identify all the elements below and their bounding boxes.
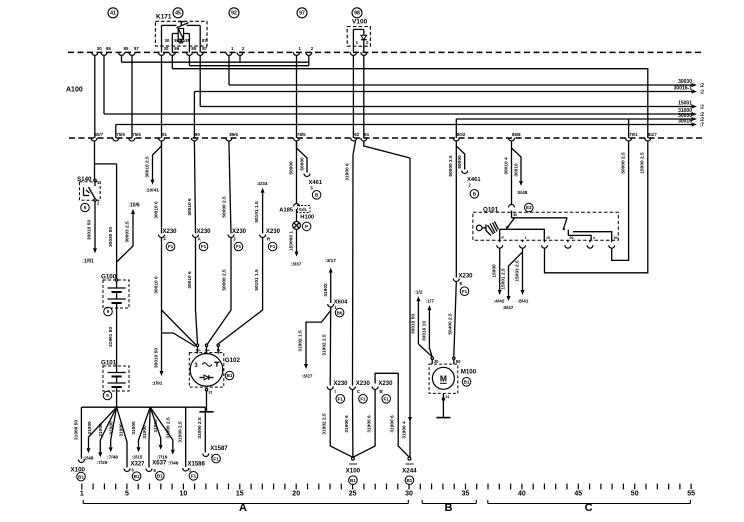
connector X230 A	[193, 235, 199, 238]
svg-text:31000: 31000	[98, 423, 104, 437]
unit A185 box	[298, 206, 311, 213]
svg-text:31000 2.5: 31000 2.5	[178, 421, 184, 443]
svg-text::7/29: :7/29	[97, 460, 108, 466]
svg-text:1: 1	[80, 491, 84, 498]
fuse ref circle F1 X230R	[268, 242, 277, 251]
svg-text:15001: 15001	[678, 101, 692, 107]
svg-text:P: P	[305, 224, 308, 229]
svg-text:31000: 31000	[153, 419, 159, 433]
top bus pin 30 at x=94.8	[92, 52, 98, 55]
svg-text:H100: H100	[300, 214, 314, 220]
wire pin2b down	[308, 55, 310, 65]
ground ref circle 6	[81, 203, 90, 212]
ignition Q101 contacts2	[567, 230, 569, 236]
wire 31902 branch :3/27	[306, 311, 331, 365]
ignition Q101 arm2	[563, 218, 567, 230]
wire 30 loop to 79/1	[612, 141, 629, 260]
svg-text:87: 87	[202, 46, 207, 51]
svg-text:50000: 50000	[457, 155, 463, 169]
connector X230 J	[228, 235, 234, 238]
svg-text:30016-1: 30016-1	[674, 86, 693, 92]
svg-text:15: 15	[236, 491, 244, 498]
svg-text:20: 20	[292, 491, 300, 498]
svg-text:F1: F1	[201, 244, 207, 249]
wire fan :7/29	[100, 407, 116, 452]
svg-text:X230: X230	[356, 381, 371, 387]
alternator G102 pins	[196, 344, 198, 346]
svg-text:31900 6: 31900 6	[344, 415, 350, 433]
wire X230C to X100	[352, 390, 354, 458]
svg-text:B: B	[445, 502, 453, 514]
svg-text::10/41: :10/41	[145, 188, 159, 194]
svg-text:10: 10	[180, 491, 188, 498]
wire V100-2 to 91	[363, 55, 365, 138]
relay K171 coil	[178, 29, 183, 40]
svg-text:30: 30	[97, 46, 102, 51]
svg-text::8/48: :8/48	[517, 190, 528, 196]
relay K171 contact tick	[180, 22, 182, 26]
wire 30010 to Q101	[511, 141, 513, 205]
svg-text:A100: A100	[66, 87, 83, 94]
wire fan X637	[149, 407, 150, 467]
svg-text:50400 2.5: 50400 2.5	[447, 313, 453, 335]
lamp H100 symbol	[296, 209, 298, 222]
node X244	[408, 457, 411, 460]
svg-text:80/2: 80/2	[457, 132, 466, 137]
svg-text::2: :2	[700, 83, 705, 89]
svg-text:B1: B1	[134, 474, 140, 479]
ignition Q101 bottom pin 5	[587, 245, 593, 248]
svg-text:30010 50: 30010 50	[153, 348, 159, 368]
coordinate ruler	[81, 484, 83, 490]
svg-text:31900 4: 31900 4	[401, 421, 407, 439]
svg-text:G101: G101	[101, 360, 117, 367]
wire 31900 long	[353, 141, 356, 386]
svg-text::7/19: :7/19	[157, 454, 168, 460]
wire relay86 down	[171, 55, 173, 68]
wire branch to B+ upper	[162, 310, 197, 346]
top bus pin 1 at x=229	[226, 52, 232, 55]
wire pin1a down	[228, 55, 230, 85]
diode V100 wiring	[352, 29, 354, 52]
relay K171 coil leads	[172, 33, 178, 35]
svg-text:86: 86	[106, 46, 111, 51]
svg-text:35: 35	[462, 491, 470, 498]
svg-text:I: I	[335, 389, 336, 394]
unit A185 pin	[294, 204, 300, 207]
wire junction to G100 feed	[95, 163, 117, 165]
lamp ref circle P	[302, 222, 311, 231]
svg-text:50000: 50000	[288, 161, 294, 175]
wire 15000 :4/42	[499, 248, 501, 290]
section bracket A	[83, 503, 408, 505]
svg-text:6: 6	[84, 205, 87, 210]
svg-text:85: 85	[124, 46, 129, 51]
svg-text:50: 50	[456, 359, 461, 364]
svg-text:X230: X230	[163, 229, 178, 235]
switch S140 pin1	[94, 179, 96, 181]
fuse ref circle F1 X230E	[460, 287, 469, 296]
svg-text:31: 31	[445, 395, 449, 399]
top bus pin 85 at x=189.4	[186, 52, 192, 55]
bottom bus pin 91	[361, 138, 367, 141]
bottom bus pin 81/7	[645, 138, 651, 141]
connector X230 B	[372, 387, 378, 390]
ground ref circle 9 G101	[103, 391, 112, 400]
starter M100 body	[432, 367, 454, 389]
svg-text:W: W	[217, 349, 221, 353]
wire fan :2/48	[89, 407, 117, 448]
svg-text:85: 85	[185, 38, 190, 43]
svg-text:31000: 31000	[87, 421, 93, 435]
svg-text:85: 85	[191, 46, 196, 51]
wire 75/5 riser	[115, 125, 117, 139]
ground ref circle B1 X244	[405, 476, 414, 485]
svg-text:92: 92	[354, 132, 359, 137]
svg-text:4: 4	[593, 236, 595, 240]
svg-text:31000: 31000	[131, 421, 137, 435]
wire relay30 to 91	[161, 55, 163, 138]
svg-text:X230: X230	[459, 274, 474, 280]
ground ref circle B6 X604	[335, 308, 344, 317]
wire 15001 :8/47	[509, 252, 523, 296]
svg-text::3/37: :3/37	[291, 261, 302, 267]
wire X230A to G102 B+	[196, 238, 198, 344]
wire 80/7 to junction	[94, 141, 96, 164]
switch S140 pin2	[94, 199, 96, 201]
connector X461 pin5	[304, 174, 310, 177]
connector X230 I	[327, 387, 333, 390]
svg-text:B1: B1	[78, 474, 84, 479]
svg-text::4/42: :4/42	[494, 298, 505, 304]
svg-text:90: 90	[195, 132, 200, 137]
bottom bus pin 86/8	[509, 138, 515, 141]
svg-text:E3: E3	[526, 205, 532, 210]
svg-text:A185: A185	[279, 207, 294, 213]
svg-text:31900 6: 31900 6	[390, 415, 396, 433]
svg-text::3/27: :3/27	[302, 374, 313, 380]
svg-text:25: 25	[349, 491, 357, 498]
svg-text::7/46: :7/46	[168, 461, 179, 467]
ignition Q101 contacts1	[500, 228, 515, 230]
wire 50101 from :4/34	[262, 193, 264, 234]
switch S140 actuator	[83, 188, 85, 196]
svg-text:15001 2.5: 15001 2.5	[501, 268, 507, 290]
wire 50000 to X230J	[229, 141, 231, 234]
top bus pin V100 at x=363.8	[361, 52, 367, 55]
svg-text:9: 9	[106, 393, 109, 398]
bottom bus pin 90	[191, 138, 197, 141]
ref :1/7 arrow	[428, 310, 430, 348]
ignition Q101 internal bar	[511, 211, 513, 218]
svg-text:15000: 15000	[492, 264, 498, 278]
alternator G102 body	[190, 354, 223, 387]
wire X1586 drop	[185, 407, 187, 467]
ground ref circle B1 G102	[225, 371, 234, 380]
svg-text:M: M	[440, 373, 447, 383]
battery G101 plates	[116, 366, 118, 373]
ground M100	[442, 393, 444, 417]
svg-text:92: 92	[231, 11, 237, 17]
bottom bus pin 91	[159, 138, 165, 141]
top bus pin 86 at x=104	[101, 52, 107, 55]
connector X637	[146, 469, 152, 472]
wire pin86 down	[103, 55, 105, 114]
diode V100 box	[347, 27, 370, 47]
bottom bus pin 75/5	[113, 138, 119, 141]
wire X1587 drop	[204, 407, 206, 452]
svg-text:B+: B+	[196, 349, 202, 353]
wire 31902 to X230I	[329, 307, 332, 386]
svg-text::7: :7	[700, 123, 705, 129]
svg-text:F1: F1	[191, 474, 197, 479]
svg-text:30010 50: 30010 50	[410, 314, 416, 334]
wire 30003 branch	[117, 214, 133, 262]
svg-text::10/6: :10/6	[128, 203, 140, 209]
wire X230I to X100	[330, 390, 353, 458]
svg-text:X100: X100	[346, 468, 361, 475]
top bus pin V100 at x=353.4	[350, 52, 356, 55]
svg-text:75/5: 75/5	[116, 132, 125, 137]
svg-text:X230: X230	[378, 381, 393, 387]
top bus pin 87 at x=132	[129, 52, 135, 55]
svg-text:31: 31	[208, 390, 212, 394]
svg-text:50101 1.5: 50101 1.5	[254, 269, 260, 291]
svg-text:F1: F1	[462, 289, 468, 294]
sheet ref 98	[352, 8, 362, 18]
top bus pin 1 at x=296.5	[294, 52, 300, 55]
svg-text:1: 1	[525, 236, 527, 240]
svg-text:30016 10: 30016 10	[421, 321, 427, 341]
ignition Q101 bottom pin 4	[565, 245, 571, 248]
svg-text::7/48: :7/48	[107, 455, 118, 461]
ignition Q101 top pin	[509, 205, 515, 208]
svg-text:81/7: 81/7	[648, 132, 657, 137]
svg-text::4/34: :4/34	[257, 181, 268, 187]
svg-text:E: E	[460, 281, 463, 286]
svg-text:X230: X230	[266, 229, 281, 235]
svg-text:F1: F1	[236, 244, 242, 249]
svg-text:80/7: 80/7	[95, 132, 104, 137]
sheet ref circle E3 Q101	[525, 203, 534, 212]
ground ref circle B1 M100	[462, 378, 471, 387]
svg-text::1/2: :1/2	[414, 290, 423, 296]
top bus pin 85 at x=121.5	[119, 52, 125, 55]
svg-text:30010 6: 30010 6	[187, 271, 193, 289]
wire to S140	[94, 164, 96, 179]
svg-text:75/6: 75/6	[132, 132, 141, 137]
svg-text:79/1: 79/1	[629, 132, 638, 137]
svg-text:F1: F1	[168, 244, 174, 249]
fuse ref circle F1 X230A	[199, 242, 208, 251]
wire X230R to G102 W	[218, 238, 262, 344]
svg-text:30010 6: 30010 6	[153, 276, 159, 294]
svg-text:B1: B1	[157, 474, 163, 479]
wire pin87 to 75/6	[131, 55, 133, 138]
wire pin2a down	[239, 55, 241, 62]
svg-text:30010 2.5: 30010 2.5	[144, 156, 150, 178]
svg-text:31000: 31000	[119, 423, 125, 437]
svg-text:31000: 31000	[109, 421, 115, 435]
wire relay87 down	[199, 55, 201, 106]
bottom bus pin 89/6	[226, 138, 232, 141]
wire 30010 branch :8/48	[512, 148, 522, 181]
wire relay85 down	[188, 55, 190, 65]
battery G101 box	[103, 366, 129, 391]
svg-text:91: 91	[162, 132, 167, 137]
svg-text::8/47: :8/47	[503, 305, 514, 311]
wire G101 to ground rail	[116, 391, 118, 407]
sheet ref 41	[108, 8, 118, 18]
ignition Q101 bottom pin 6	[609, 245, 615, 248]
svg-text:30010 6: 30010 6	[187, 198, 193, 216]
svg-text:30010 6: 30010 6	[153, 201, 159, 219]
wire fan :7/46	[150, 407, 173, 450]
wire 31901 diag	[364, 141, 410, 158]
diode V100 symbol	[361, 35, 367, 39]
connector X230 C	[350, 387, 356, 390]
svg-text:X230: X230	[334, 381, 349, 387]
ground ref circle B1 X100 left	[77, 472, 86, 481]
switch S140 contact	[94, 182, 96, 187]
svg-text:F1: F1	[384, 397, 390, 402]
wire 15 loop to 81/7	[545, 141, 648, 273]
svg-text::2: :2	[700, 90, 705, 96]
wire 31000 exit	[104, 113, 692, 115]
svg-text:86: 86	[174, 38, 179, 43]
node X100 mid	[352, 457, 355, 460]
wire 15003 :8/41	[522, 248, 524, 290]
wire diag to M100 pin30	[418, 344, 432, 357]
switch S140 box	[80, 182, 101, 201]
wire fan :7/48	[111, 407, 117, 447]
svg-text:B1: B1	[464, 380, 470, 385]
bottom bus pin 75/6	[129, 138, 135, 141]
wire 30011 internal	[172, 69, 648, 138]
wire relay85 link	[189, 65, 308, 67]
svg-text:X1587: X1587	[210, 446, 228, 452]
ground ref circle B X461-5	[312, 191, 321, 200]
wire 50000 to X461-2	[456, 146, 464, 170]
svg-text::2/48: :2/48	[83, 456, 94, 462]
svg-text:50: 50	[631, 491, 639, 498]
svg-text:30: 30	[513, 213, 517, 217]
ground G102	[206, 391, 208, 411]
wire X100 drop	[80, 407, 82, 458]
wire 50000 to A185	[296, 141, 298, 203]
connector X230 E	[453, 279, 459, 282]
wire 15001 exit	[200, 106, 691, 108]
svg-text:15003 2.5: 15003 2.5	[515, 260, 521, 282]
svg-text:J: J	[233, 237, 236, 242]
svg-text:40: 40	[518, 491, 526, 498]
svg-text:78/5: 78/5	[297, 132, 306, 137]
wire V100-1 to 92	[352, 55, 354, 138]
svg-text:41: 41	[110, 11, 116, 17]
wire pin90 riser	[193, 92, 195, 139]
svg-text:31900 6: 31900 6	[345, 163, 351, 181]
svg-text:86/8: 86/8	[512, 132, 521, 137]
top bus pin 30 at x=161.5	[159, 52, 165, 55]
wire 30010 from S140	[94, 201, 96, 248]
wire 30030 exit	[229, 84, 692, 86]
battery G100 plates	[116, 281, 118, 288]
svg-text:50000 2.5: 50000 2.5	[448, 155, 454, 177]
svg-text:31902: 31902	[323, 283, 329, 297]
svg-text:87: 87	[202, 38, 207, 43]
connector X230 R	[260, 235, 266, 238]
ignition Q101 bottom pin 2	[520, 245, 526, 248]
svg-text:45: 45	[175, 11, 181, 17]
svg-text:55: 55	[687, 491, 695, 498]
wire 31901 G100-G101	[116, 308, 118, 366]
svg-text:15: 15	[546, 236, 550, 240]
svg-text:B1: B1	[350, 478, 356, 483]
top bus pin 86 at x=172.3	[169, 52, 175, 55]
top bus pin 2 at x=308.8	[306, 52, 312, 55]
svg-text:31902 2.5: 31902 2.5	[322, 334, 328, 356]
wire ground rail	[81, 406, 205, 408]
bottom bus pin 78/5	[294, 138, 300, 141]
node A100 top dashed bus	[68, 51, 703, 53]
svg-text:50000 2.5: 50000 2.5	[620, 152, 626, 174]
node A100 bottom dashed bus	[69, 137, 703, 139]
wire 30010 to X230A	[194, 141, 195, 234]
svg-text:30: 30	[165, 38, 170, 43]
top bus pin 2 at x=240	[237, 52, 243, 55]
bottom bus pin 80/7	[91, 138, 97, 141]
wire 30016 exit	[116, 124, 692, 126]
svg-text:C: C	[585, 502, 593, 514]
wire 50000 to X461-5	[297, 141, 308, 173]
svg-text:31000 2.5: 31000 2.5	[166, 417, 172, 439]
svg-text:X1586: X1586	[188, 461, 206, 467]
svg-text::1/91: :1/91	[152, 381, 163, 387]
svg-text:G100: G100	[101, 274, 117, 281]
svg-text:31000: 31000	[142, 425, 148, 439]
wire 31902 from :3/17	[330, 273, 332, 303]
svg-text:30: 30	[164, 46, 169, 51]
svg-text:V100: V100	[352, 19, 368, 26]
wire 30010 X230F to G102	[161, 238, 163, 372]
ignition Q101 box	[473, 212, 618, 240]
bottom bus pin 92	[351, 138, 357, 141]
svg-text:F1: F1	[213, 456, 219, 461]
svg-text:G102: G102	[225, 357, 241, 364]
fuse ref circle F1 X230C	[359, 395, 368, 404]
svg-text:97: 97	[299, 11, 305, 17]
wire pin30 to 80/7	[94, 55, 96, 138]
svg-text:50: 50	[570, 236, 574, 240]
svg-text:31902 2.5: 31902 2.5	[322, 413, 328, 435]
connector X327	[124, 469, 130, 472]
svg-text:X244: X244	[402, 468, 417, 475]
ref :1/2 arrow	[417, 301, 419, 344]
svg-text:F1: F1	[270, 244, 276, 249]
wire pin1b through	[296, 55, 298, 138]
svg-text:30010 50: 30010 50	[87, 220, 93, 240]
svg-text:9: 9	[107, 309, 110, 314]
svg-text:30010 4: 30010 4	[503, 157, 509, 175]
svg-text:98: 98	[354, 11, 360, 17]
svg-text:M100: M100	[461, 368, 477, 375]
wire jumper 2-2	[122, 61, 309, 63]
bottom bus pin 80/2	[453, 138, 459, 141]
sheet ref 97	[297, 8, 307, 18]
relay K171 box	[155, 21, 207, 46]
wire 30010 branch :10/41	[153, 141, 162, 180]
sheet ref 92	[229, 8, 239, 18]
